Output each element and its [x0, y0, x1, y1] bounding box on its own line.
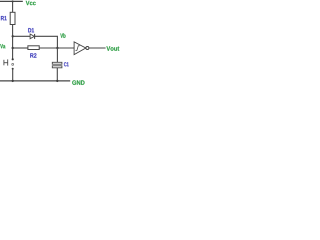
ground GND label	[72, 80, 84, 85]
ground rail wire	[0, 80, 70, 82]
junction dot Va / D1 branch	[12, 35, 14, 37]
op-amp U1 Schmitt trigger inverter	[74, 42, 89, 55]
wire R1 to switch	[12, 25, 14, 59]
wire R2 to op-amp input	[39, 47, 74, 49]
wire switch to ground rail	[12, 69, 14, 81]
switch SW1 push button	[4, 58, 14, 70]
background	[0, 0, 120, 86]
node Va label	[0, 44, 5, 48]
junction dot Va / R2 branch	[12, 47, 14, 49]
wire op-amp output to Vout	[89, 47, 106, 49]
junction dot Vcc rail / R1	[12, 0, 14, 2]
junction dot C1 / ground rail	[56, 80, 58, 82]
label C1	[64, 62, 69, 66]
node Vb label	[60, 33, 65, 38]
node Vout label	[106, 46, 119, 50]
label R2	[30, 53, 36, 57]
resistor R2	[28, 46, 39, 50]
label D1	[28, 28, 34, 32]
wire Va to D1 anode	[13, 35, 31, 37]
capacitor C1	[52, 62, 62, 68]
wire Vb to C1	[56, 48, 58, 62]
wire C1 to ground rail	[56, 68, 58, 81]
resistor R1	[10, 12, 15, 24]
wire Vcc to R1	[12, 1, 14, 12]
label R1	[1, 16, 7, 20]
wire D1 cathode to node Vb corner	[35, 36, 58, 48]
node Vcc label	[26, 1, 36, 5]
diode D1	[30, 34, 34, 39]
wire Vcc top rail	[0, 0, 23, 2]
junction dot switch / ground rail	[12, 80, 14, 82]
junction dot node Vb	[56, 47, 58, 49]
wire Va to R2	[13, 47, 28, 49]
